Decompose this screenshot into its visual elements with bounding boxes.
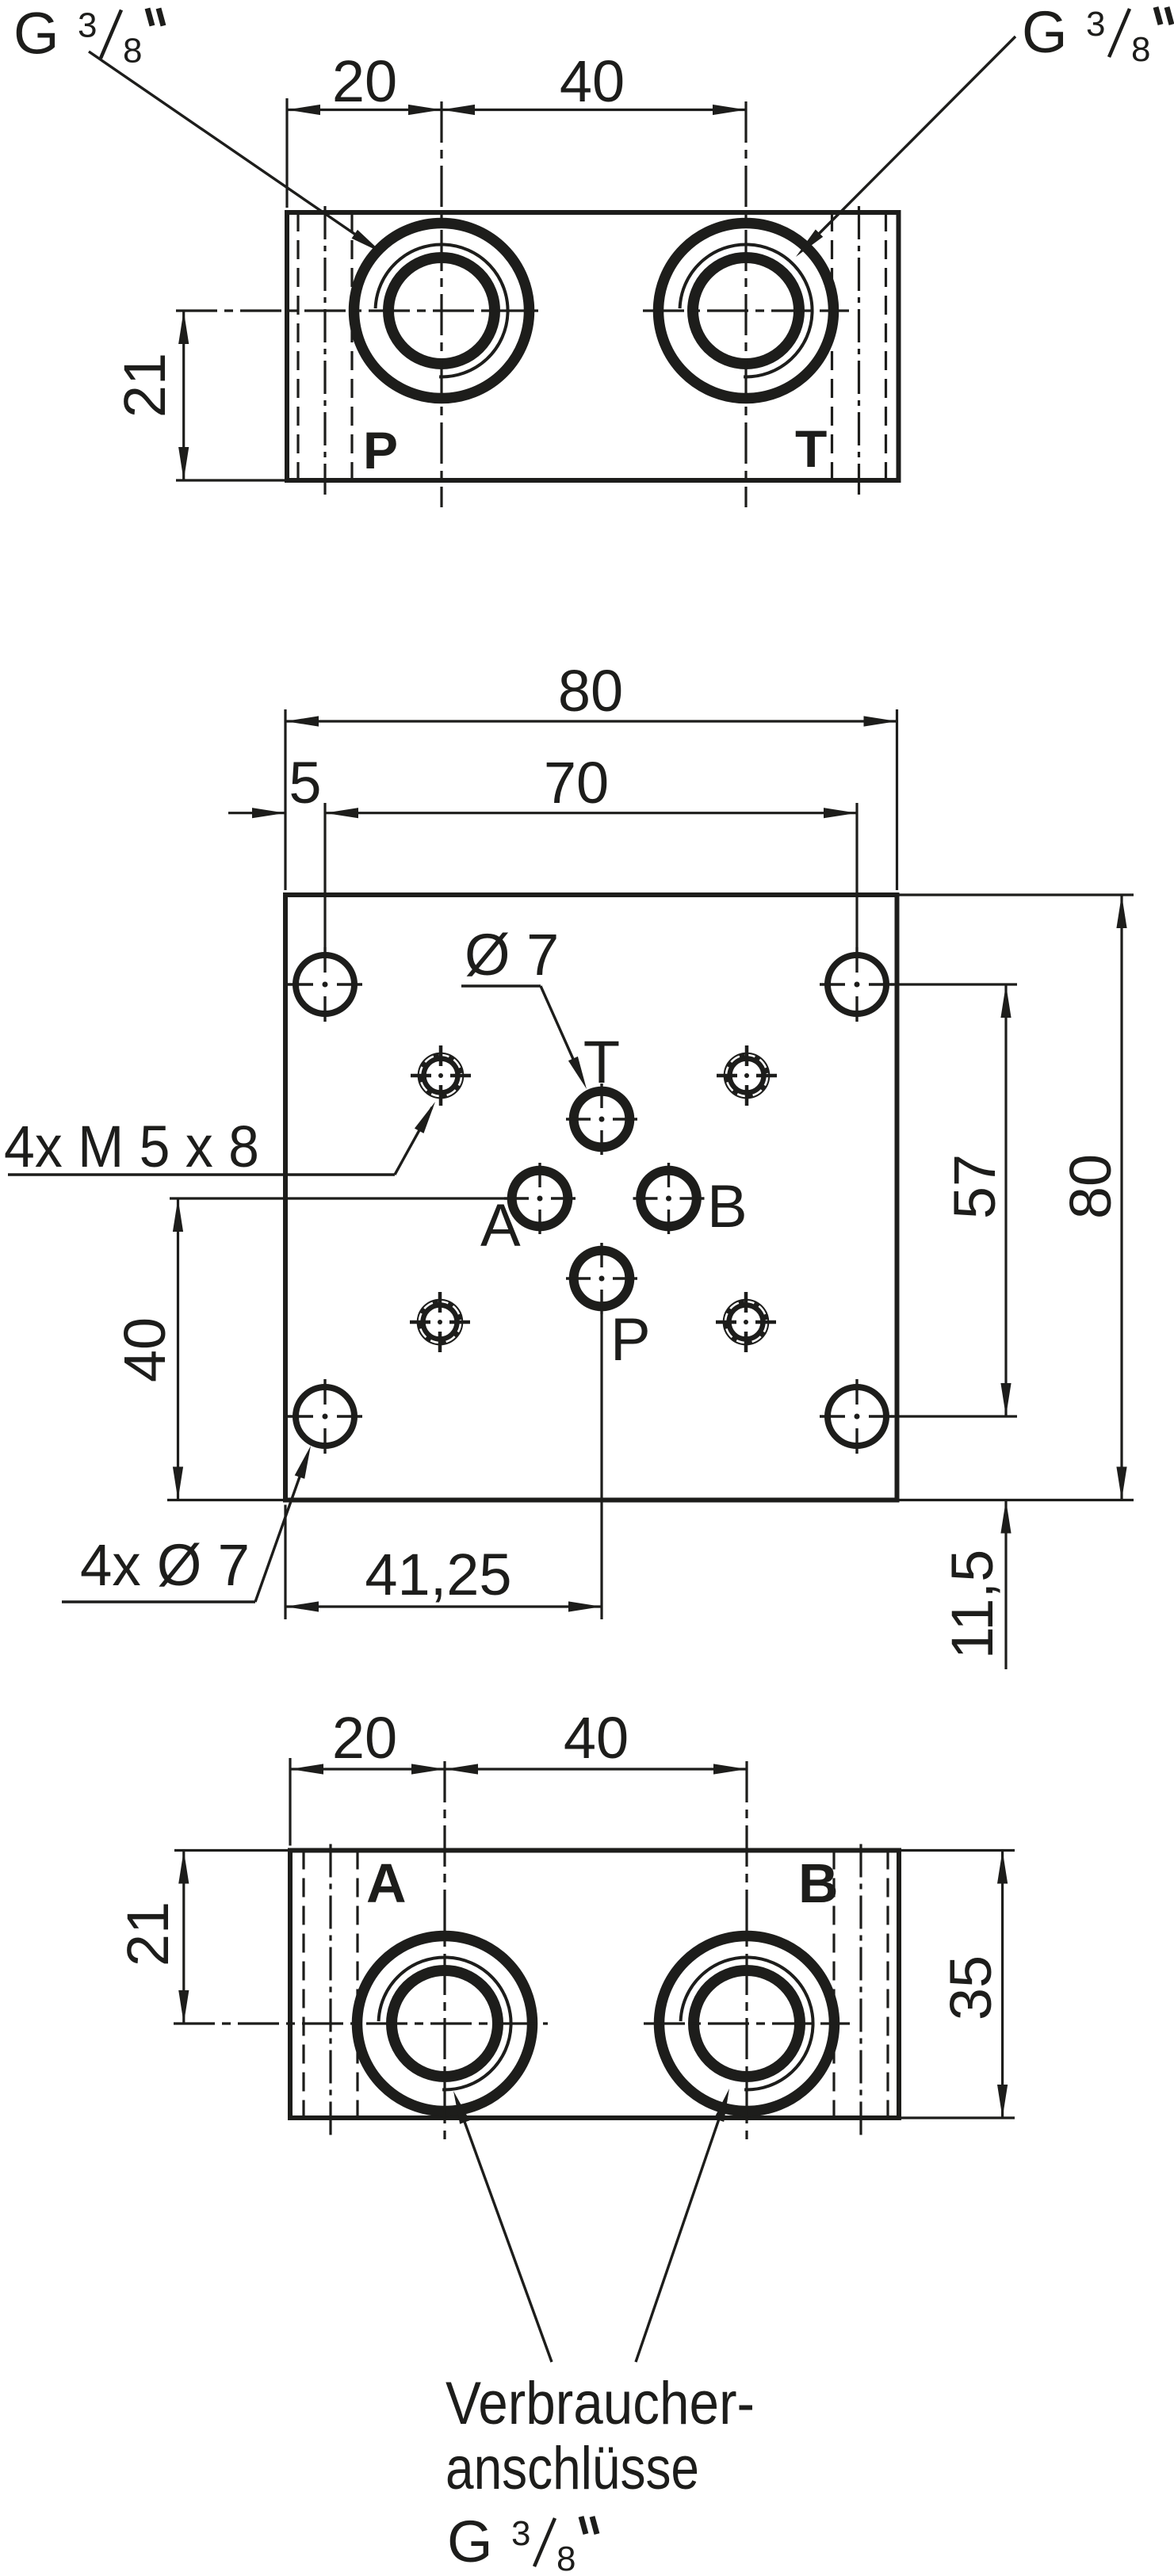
view3 dimension line 40 [445, 1768, 747, 1770]
view3 extension line left edge up [289, 1758, 291, 1846]
view3 hidden hole line left outer [302, 1851, 304, 2119]
port P counterbore circle [354, 224, 530, 399]
label G 3/8 inch (top left) - fraction slash [101, 10, 121, 59]
leader line from G 3/8 label to port T [809, 36, 1015, 244]
port P bore circle [388, 258, 495, 364]
port A horizontal centerline [174, 2022, 548, 2024]
view1 hidden hole line right inner [831, 212, 833, 480]
view3 dimension line 20 [290, 1768, 445, 1770]
port B thread crest arc [681, 1957, 813, 2089]
svg-text:35: 35 [938, 1955, 1004, 2020]
dimension line 5 outside tail [228, 812, 285, 814]
view3 hidden hole line left inner [356, 1851, 358, 2119]
threaded hole M5 bottom-right ring [727, 1303, 765, 1341]
leader underline for diameter 7 label [461, 984, 541, 987]
svg-text:G: G [1022, 0, 1068, 65]
threaded hole M5 bottom-right centerlines [716, 1320, 736, 1324]
svg-text:21: 21 [115, 1901, 181, 1966]
svg-text:T: T [583, 1029, 620, 1096]
threaded hole M5 bottom-left centerlines [410, 1320, 430, 1324]
port hole T circle [574, 1091, 630, 1148]
threaded hole M5 top-right ring [728, 1057, 766, 1095]
svg-text:41,25: 41,25 [365, 1542, 511, 1607]
port T vertical centerline [744, 101, 747, 507]
port hole A circle [512, 1171, 568, 1227]
view3 block outline [290, 1851, 899, 2119]
port T bore circle [693, 258, 799, 364]
view3 hole centerline left [329, 1844, 331, 2136]
dimension line 11.5 tail below [1004, 1500, 1007, 1670]
view1 hidden hole line right outer [885, 212, 887, 480]
svg-text:P: P [610, 1306, 651, 1374]
svg-text:80: 80 [558, 658, 623, 724]
svg-text:20: 20 [332, 48, 397, 114]
threaded hole M5 top-left centerlines [411, 1074, 431, 1078]
port T horizontal centerline [643, 309, 849, 311]
view1 hidden hole line left inner [350, 212, 353, 480]
leader line port A to consumer note [457, 2102, 552, 2362]
dimension line 57 [1004, 984, 1007, 1416]
svg-text:4x Ø 7: 4x Ø 7 [80, 1532, 250, 1598]
port B counterbore circle [660, 1936, 835, 2112]
svg-text:Verbraucher-: Verbraucher- [446, 2370, 755, 2437]
leader line port B to consumer note [636, 2100, 725, 2362]
port P horizontal centerline [176, 309, 545, 311]
label G 3/8 inch (top right) - fraction slash [1109, 9, 1130, 57]
svg-text:3: 3 [78, 6, 97, 45]
dimension line 80 right [1120, 895, 1122, 1500]
leader underline for 4x diameter 7 label [62, 1600, 255, 1603]
dimension line 80 top [285, 720, 897, 722]
label G 3/8 inch (top left) - double prime [147, 9, 152, 26]
port hole A centerlines [504, 1197, 529, 1199]
mounting hole 7mm bottom-left [296, 1387, 354, 1446]
extension line port A row to left [170, 1197, 504, 1199]
dimension line 40 left [177, 1198, 179, 1500]
view3 top edge extension right [901, 1849, 1015, 1852]
svg-text:P: P [363, 421, 398, 480]
plate bottom edge extension right [900, 1499, 1134, 1501]
threaded hole M5 bottom-right thread dashed circle [725, 1301, 767, 1343]
svg-text:T: T [795, 419, 827, 478]
port hole B circle [641, 1171, 697, 1227]
view3 dimension line 35 [1001, 1851, 1004, 2119]
svg-text:3: 3 [1086, 5, 1105, 44]
view3 hidden hole line right inner [832, 1851, 835, 2119]
extension line hole column right [855, 803, 858, 947]
plate right edge extension up [896, 709, 898, 890]
svg-text:3: 3 [511, 2514, 530, 2553]
leader underline for 4x M5 label [8, 1173, 395, 1175]
svg-text:A: A [480, 1192, 521, 1259]
port T counterbore circle [659, 224, 834, 399]
svg-text:8: 8 [556, 2540, 576, 2576]
svg-text:Ø 7: Ø 7 [465, 922, 559, 988]
mounting hole bottom-right centerlines [820, 1415, 845, 1417]
view3 dimension line 21 [182, 1851, 185, 2024]
mounting hole 7mm top-left [296, 955, 354, 1014]
svg-text:4x M 5 x 8: 4x M 5 x 8 [4, 1114, 259, 1179]
label G 3/8 inch (bottom note) - double prime [581, 2517, 586, 2534]
svg-text:40: 40 [112, 1317, 178, 1382]
view1 dimension line 20 [287, 109, 442, 111]
leader line 4x diameter 7 to bottom-left hole [255, 1454, 308, 1602]
svg-text:40: 40 [560, 48, 625, 114]
view1 bottom edge extension left [176, 479, 285, 481]
port A vertical centerline [443, 1761, 446, 2142]
threaded hole M5 top-left ring [422, 1057, 460, 1095]
port P vertical centerline [440, 101, 442, 507]
port P centerline extension down [600, 1314, 602, 1619]
svg-text:8: 8 [123, 32, 142, 71]
svg-text:B: B [707, 1173, 748, 1240]
plate left edge extension up [284, 709, 286, 890]
svg-text:11,5: 11,5 [939, 1550, 1005, 1660]
mounting hole 7mm top-right [828, 955, 886, 1014]
label G 3/8 inch (top right) - double prime [1156, 7, 1161, 25]
svg-text:80: 80 [1057, 1154, 1123, 1219]
port hole B centerlines [633, 1197, 658, 1199]
dimension line 70 [325, 812, 857, 814]
svg-text:G: G [447, 2509, 493, 2574]
view3 bottom edge extension right [901, 2116, 1015, 2119]
view1 hidden hole line left outer [296, 212, 299, 480]
port A bore circle [392, 1970, 498, 2077]
port hole P centerlines [566, 1277, 591, 1279]
view3 hidden hole line right outer [886, 1851, 889, 2119]
extension line hole column left [323, 803, 326, 947]
view3 top edge extension left [174, 1849, 288, 1852]
threaded hole M5 bottom-left thread dashed circle [419, 1301, 461, 1343]
plate left edge extension down [284, 1505, 286, 1620]
plate outline [285, 895, 897, 1500]
svg-text:20: 20 [332, 1705, 397, 1771]
extension line top-right hole to right [894, 983, 1017, 985]
port B vertical centerline [745, 1761, 748, 2142]
view3 hole centerline right [859, 1844, 862, 2136]
mounting hole top-left centerlines [288, 983, 313, 985]
leader line from G 3/8 label to port P [89, 52, 369, 244]
view1 hole centerline right [858, 206, 860, 495]
view1 block outline [287, 212, 899, 480]
svg-text:57: 57 [942, 1154, 1008, 1219]
plate bottom edge extension left [167, 1499, 283, 1501]
svg-text:70: 70 [544, 750, 609, 816]
port hole P circle [574, 1251, 630, 1307]
port B horizontal centerline [644, 2022, 850, 2024]
view1 dimension line 40 [442, 109, 746, 111]
port A counterbore circle [358, 1936, 533, 2112]
svg-text:8: 8 [1131, 30, 1150, 69]
dimension line 41,25 [285, 1605, 602, 1607]
threaded hole M5 top-left thread dashed circle [420, 1055, 461, 1096]
svg-text:5: 5 [289, 750, 321, 816]
port P thread crest arc [376, 244, 508, 376]
leader line 4x M5 to threaded hole [395, 1107, 432, 1175]
svg-text:A: A [366, 1852, 407, 1914]
threaded hole M5 top-right centerlines [717, 1074, 737, 1078]
mounting hole bottom-left centerlines [288, 1415, 313, 1417]
port B bore circle [694, 1970, 800, 2077]
port A thread crest arc [379, 1957, 511, 2089]
threaded hole M5 top-right thread dashed circle [726, 1055, 767, 1096]
mounting hole 7mm bottom-right [828, 1387, 886, 1446]
port T thread crest arc [680, 244, 813, 376]
svg-text:21: 21 [112, 353, 178, 418]
label G 3/8 inch (bottom note) - fraction slash [534, 2518, 555, 2566]
leader line diameter 7 to port T [541, 986, 583, 1080]
extension line bottom-right hole to right [894, 1415, 1017, 1417]
svg-text:G: G [13, 1, 59, 67]
view1 extension line left edge up [285, 98, 288, 208]
threaded hole M5 bottom-left ring [421, 1303, 459, 1341]
svg-text:B: B [798, 1852, 839, 1914]
svg-text:40: 40 [564, 1705, 629, 1771]
plate top edge extension right [900, 893, 1134, 896]
view1 dimension line 21 [182, 311, 185, 480]
mounting hole top-right centerlines [820, 983, 845, 985]
view1 hole centerline left [323, 206, 326, 495]
port hole T centerlines [566, 1118, 591, 1120]
svg-text:anschlüsse: anschlüsse [446, 2435, 699, 2502]
